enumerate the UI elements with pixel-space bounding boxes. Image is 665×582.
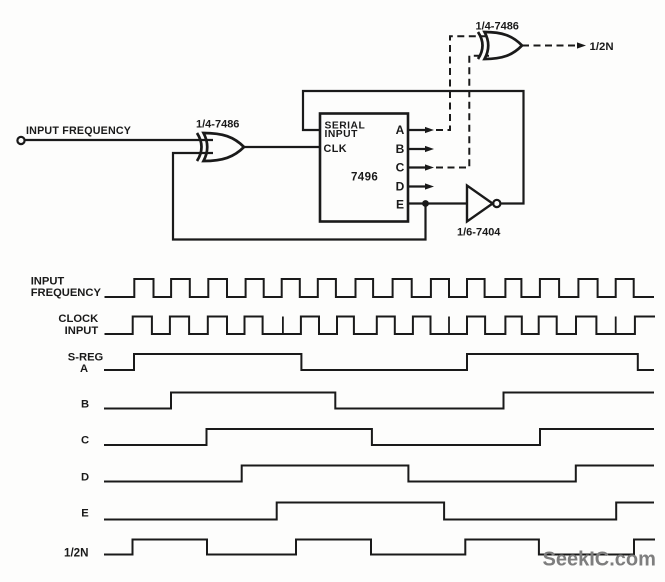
svg-text:A: A: [396, 123, 405, 137]
svg-text:1/4-7486: 1/4-7486: [196, 119, 239, 131]
svg-text:1/4-7486: 1/4-7486: [476, 20, 519, 32]
svg-text:INPUT: INPUT: [325, 129, 359, 140]
svg-text:D: D: [81, 471, 89, 483]
svg-text:INPUT: INPUT: [65, 325, 99, 337]
svg-text:B: B: [81, 399, 89, 411]
svg-text:D: D: [396, 180, 405, 194]
svg-text:7496: 7496: [351, 171, 378, 183]
svg-text:1/2N: 1/2N: [590, 41, 614, 53]
svg-text:E: E: [396, 198, 404, 212]
svg-text:FREQUENCY: FREQUENCY: [31, 287, 102, 299]
svg-text:B: B: [396, 142, 405, 156]
svg-text:C: C: [81, 434, 89, 446]
svg-text:A: A: [80, 363, 88, 375]
svg-text:C: C: [396, 161, 405, 175]
svg-text:INPUT FREQUENCY: INPUT FREQUENCY: [26, 125, 131, 137]
svg-text:1/6-7404: 1/6-7404: [457, 227, 501, 239]
svg-text:E: E: [81, 508, 89, 520]
svg-text:CLOCK: CLOCK: [58, 313, 98, 325]
svg-text:CLK: CLK: [324, 143, 347, 155]
svg-text:S-REG: S-REG: [68, 351, 104, 363]
svg-text:SeekIC.com: SeekIC.com: [543, 548, 656, 570]
svg-text:INPUT: INPUT: [31, 275, 65, 287]
svg-text:1/2N: 1/2N: [64, 547, 89, 560]
